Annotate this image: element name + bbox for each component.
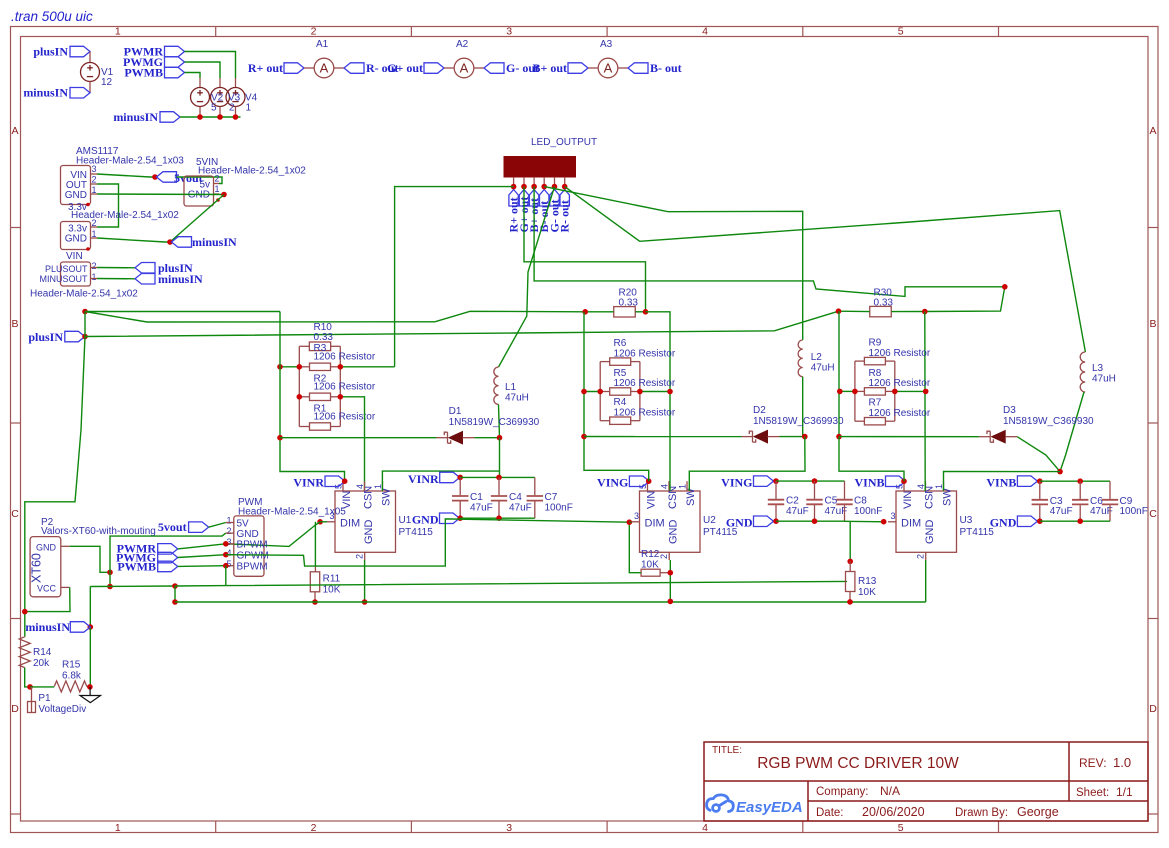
pins PWM header xyxy=(226,523,234,566)
junction LED pin 1 xyxy=(511,184,517,190)
wire B- out to L2 xyxy=(544,187,803,340)
junction PWM pin3 xyxy=(223,541,229,547)
svg-text:47uF: 47uF xyxy=(509,503,532,514)
net flag plusIN (VIN header) xyxy=(135,263,155,274)
pin VIN 1 xyxy=(91,278,98,280)
pin 5VIN 2 xyxy=(214,183,220,185)
svg-text:R11: R11 xyxy=(323,574,341,585)
junction R13 top xyxy=(847,559,853,565)
pins LED_OUTPUT 1-6 xyxy=(514,177,565,187)
junction LED pin 3 xyxy=(531,184,537,190)
wire GND diagonal to minusIN xyxy=(170,195,224,243)
svg-text:R13: R13 xyxy=(858,576,877,587)
wire L3 bottom xyxy=(1060,392,1084,472)
svg-text:47uF: 47uF xyxy=(786,506,809,517)
junction U1 DIM xyxy=(317,519,323,525)
wire BPWM drop xyxy=(225,566,227,586)
svg-text:A2: A2 xyxy=(456,39,469,50)
svg-text:C8: C8 xyxy=(854,496,867,507)
svg-text:4: 4 xyxy=(702,26,708,38)
capacitor C3 xyxy=(1032,481,1048,521)
svg-text:2: 2 xyxy=(311,26,317,38)
svg-text:U2: U2 xyxy=(703,515,716,526)
wire plusIN to R-channel rail xyxy=(85,311,280,313)
svg-text:5: 5 xyxy=(211,103,217,114)
wire R20 left xyxy=(585,311,614,313)
junction R15 gnd xyxy=(87,684,93,690)
net flag minusIN (V1 bottom) xyxy=(70,88,90,99)
net flag GND (C cluster R) xyxy=(440,513,460,524)
svg-text:100nF: 100nF xyxy=(854,506,882,517)
wire U1 GND to bus xyxy=(364,560,366,602)
wire D1 anode to SW node xyxy=(475,437,500,439)
net flag B- out (LED pin 4) xyxy=(540,190,549,207)
inductor L2 xyxy=(798,340,803,377)
svg-text:U3: U3 xyxy=(960,515,973,526)
junction C3 bottom xyxy=(1037,518,1043,524)
wire BPWM long run xyxy=(175,581,847,586)
inductor L3 xyxy=(1080,352,1085,392)
svg-text:PT4115: PT4115 xyxy=(399,527,434,538)
wire U3 GND to bus xyxy=(925,560,927,602)
title block text xyxy=(712,745,1133,819)
net flag plusIN (V1 top) xyxy=(70,46,90,57)
svg-text:R12: R12 xyxy=(641,549,660,560)
junction LED pin 6 xyxy=(562,184,568,190)
wire bank B right exit xyxy=(895,390,926,392)
svg-text:L3: L3 xyxy=(1092,363,1104,374)
junction GND net xyxy=(221,192,227,198)
net flag minusIN (bottom) xyxy=(70,622,90,633)
svg-text:2: 2 xyxy=(311,822,317,834)
junction U1 VIN xyxy=(342,478,348,484)
wire B channel VIN rail xyxy=(838,311,840,436)
capacitor C5 xyxy=(806,481,822,521)
junction B rail D3 row xyxy=(836,434,842,440)
svg-text:B- out: B- out xyxy=(650,61,682,75)
junction R rail D1 row xyxy=(277,435,283,441)
pin AMS1117 GND xyxy=(91,193,98,195)
capacitor C8 xyxy=(836,481,852,521)
wire R30 right xyxy=(891,311,925,313)
svg-text:VINR: VINR xyxy=(293,476,324,490)
pins U1 xyxy=(327,481,383,560)
junction C6 top xyxy=(1077,478,1083,484)
wire to U3 DIM xyxy=(845,520,887,523)
svg-text:3: 3 xyxy=(92,164,97,174)
pin R11 bottom xyxy=(314,592,316,602)
wire PWMG to pin4 xyxy=(178,555,226,558)
svg-text:DIM: DIM xyxy=(645,518,665,530)
svg-text:12: 12 xyxy=(101,77,113,88)
svg-text:GND: GND xyxy=(36,543,57,553)
sense bank rails G channel xyxy=(600,362,640,421)
junction SW node B xyxy=(1057,469,1063,475)
junction G rail D2 row xyxy=(581,434,587,440)
svg-text:C7: C7 xyxy=(545,492,558,503)
wire R13 top riser xyxy=(849,522,851,562)
svg-text:1: 1 xyxy=(226,516,231,526)
wire C cluster G bottom rail xyxy=(776,520,845,522)
junction PWM pin4 xyxy=(223,552,229,558)
svg-text:plusIN: plusIN xyxy=(33,45,68,59)
svg-text:B: B xyxy=(1149,318,1156,330)
wire XT60 VCC to rail xyxy=(25,587,70,611)
junction plusIN flag xyxy=(82,334,88,340)
wire bank B left exit xyxy=(840,390,855,392)
junction C2 bottom xyxy=(773,518,779,524)
svg-text:.tran 500u uic: .tran 500u uic xyxy=(11,9,93,24)
net flag VINB (C cluster) xyxy=(1017,476,1037,487)
net flag G+ out (LED pin 2) xyxy=(519,190,528,207)
svg-text:A1: A1 xyxy=(316,39,329,50)
capacitor C7 xyxy=(527,477,543,518)
svg-text:1: 1 xyxy=(373,484,383,489)
svg-text:1N5819W_C369930: 1N5819W_C369930 xyxy=(449,417,540,428)
net flag G- out (LED pin 5) xyxy=(550,190,559,207)
wire R11 top to DIM xyxy=(314,522,316,566)
svg-text:10K: 10K xyxy=(858,587,876,598)
pin V4 minus xyxy=(235,107,237,118)
pin VIN 2 xyxy=(91,267,98,269)
wire U2 SW xyxy=(689,437,805,491)
wire R channel VIN rail xyxy=(280,312,345,482)
net flag GND (C cluster B) xyxy=(1017,516,1037,527)
svg-text:D: D xyxy=(1149,703,1157,715)
svg-text:4: 4 xyxy=(702,822,708,834)
svg-text:Drawn By:: Drawn By: xyxy=(955,807,1008,819)
svg-text:C: C xyxy=(11,508,19,520)
junction bank R left R2 xyxy=(297,394,303,400)
voltage source V3 xyxy=(211,88,230,107)
junction PWM pin5 xyxy=(223,563,229,569)
svg-text:minusIN: minusIN xyxy=(25,620,70,634)
wire C cluster B top rail xyxy=(1040,480,1110,482)
resistor R14 xyxy=(19,637,30,668)
pin AMS1117 VIN xyxy=(91,173,98,175)
svg-text:R14: R14 xyxy=(33,647,52,658)
svg-text:VoltageDiv: VoltageDiv xyxy=(38,704,86,715)
svg-text:20k: 20k xyxy=(33,658,50,669)
pin R12 right xyxy=(660,572,670,574)
svg-text:LED_OUTPUT: LED_OUTPUT xyxy=(531,137,597,148)
svg-text:C5: C5 xyxy=(825,496,838,507)
svg-text:2: 2 xyxy=(226,526,231,536)
wire G rail to D2 cathode xyxy=(584,436,742,438)
net flag minusIN (VIN header) xyxy=(135,274,155,285)
junction R rail R3 row xyxy=(277,364,283,370)
junction U2 VIN xyxy=(646,478,652,484)
junction bank B right xyxy=(892,389,898,395)
wire PWMR to pin3 xyxy=(178,544,226,549)
net flag VINR (C cluster) xyxy=(440,472,460,483)
svg-text:1.0: 1.0 xyxy=(1113,755,1131,770)
IC U2 PT4115 xyxy=(640,491,701,552)
svg-text:C6: C6 xyxy=(1090,496,1103,507)
net flag 5vout (PWM) xyxy=(189,522,209,533)
wire gnd to PWM pin2 xyxy=(110,533,226,572)
wire C cluster R top rail xyxy=(460,476,535,478)
svg-text:5V: 5V xyxy=(237,518,250,529)
svg-text:VIN: VIN xyxy=(66,251,83,262)
ground symbol xyxy=(80,687,101,703)
junction R20 left xyxy=(582,309,588,315)
junction U1 GND bus xyxy=(362,599,368,605)
net flag R+ out (LED pin 1) xyxy=(509,190,518,207)
svg-text:47uH: 47uH xyxy=(505,393,529,404)
wire plusIN to D1 cathode xyxy=(280,437,437,439)
svg-text:D2: D2 xyxy=(753,405,766,416)
svg-text:Date:: Date: xyxy=(816,807,844,819)
wire U2 GND to bus xyxy=(669,560,671,601)
pin XT60 GND xyxy=(61,545,70,547)
svg-text:XT60: XT60 xyxy=(30,553,44,583)
wire B rail to U3 VIN xyxy=(839,437,904,482)
wire V1 plus pin xyxy=(89,52,91,63)
svg-text:plusIN: plusIN xyxy=(28,330,63,344)
wire GPWM to U2 DIM xyxy=(226,519,630,566)
svg-text:1: 1 xyxy=(92,272,97,282)
svg-text:D3: D3 xyxy=(1003,405,1016,416)
wire D3 anode to SW node xyxy=(1017,437,1060,472)
junction R13 bus xyxy=(847,599,853,605)
net flag VINB (U3 VIN) xyxy=(886,476,906,487)
wire PWMR to V4 xyxy=(185,52,236,79)
wire minusIN to R15 xyxy=(89,627,91,687)
junction V4 minus xyxy=(233,114,239,120)
inductor L1 xyxy=(494,367,499,404)
wire B rail to D3 cathode xyxy=(839,436,979,438)
voltage source V4 xyxy=(226,88,245,107)
svg-text:1/1: 1/1 xyxy=(1116,785,1133,799)
svg-text:20/06/2020: 20/06/2020 xyxy=(862,805,925,819)
junction C5 top xyxy=(812,478,818,484)
IC U3 PT4115 xyxy=(896,491,957,552)
junction C3 top xyxy=(1037,478,1043,484)
svg-text:10K: 10K xyxy=(323,585,341,596)
svg-text:47uF: 47uF xyxy=(1050,506,1073,517)
svg-text:100nF: 100nF xyxy=(1120,506,1148,517)
net flag minusIN (sources) xyxy=(160,112,180,123)
sense bank rails R channel xyxy=(299,346,340,426)
svg-text:Sheet:: Sheet: xyxy=(1076,787,1109,799)
svg-text:REV:: REV: xyxy=(1079,756,1107,770)
wire R20 to U2 CSN xyxy=(646,312,671,491)
wire ground bus xyxy=(175,601,926,603)
capacitor C1 xyxy=(452,477,468,518)
wire R15 left xyxy=(30,686,54,688)
svg-text:A: A xyxy=(604,61,613,76)
svg-text:A3: A3 xyxy=(600,39,613,50)
capacitor C2 xyxy=(768,481,784,521)
junction bank R right R3 xyxy=(338,364,344,370)
junction minusIN bottom xyxy=(88,624,94,630)
wire PLUSOUT to plusIN xyxy=(97,267,135,269)
pin R11 top xyxy=(314,566,316,572)
svg-text:1206 Resistor: 1206 Resistor xyxy=(314,352,376,363)
svg-text:2: 2 xyxy=(92,261,97,271)
svg-text:1: 1 xyxy=(246,103,252,114)
junction C2 top xyxy=(773,478,779,484)
wire gnd drop xyxy=(109,572,111,586)
net flag plusIN (left rail) xyxy=(65,331,85,342)
wire G channel VIN rail xyxy=(584,312,649,481)
svg-text:P1: P1 xyxy=(38,693,51,704)
net flag PWMG xyxy=(165,57,185,68)
junction P2 gnd b xyxy=(107,584,113,590)
wire bank G left exit xyxy=(584,391,600,393)
wire plusIN down-left rail xyxy=(25,337,85,637)
svg-text:VINB: VINB xyxy=(986,476,1016,490)
IC U1 PT4115 xyxy=(335,491,396,552)
wire PWMB to V2 xyxy=(185,73,201,79)
svg-text:A: A xyxy=(460,61,469,76)
svg-text:EasyEDA: EasyEDA xyxy=(736,799,803,816)
svg-text:2: 2 xyxy=(92,175,97,185)
wire 5vout to PWM pin1 xyxy=(209,523,226,528)
junction C1 bottom xyxy=(457,515,463,521)
svg-text:Valors-XT60-with-mouting: Valors-XT60-with-mouting xyxy=(41,526,156,537)
junction G rail R5 row xyxy=(581,389,587,395)
wire XT60 GND xyxy=(70,546,110,572)
pin R13 bottom xyxy=(849,592,851,602)
junction bus head top xyxy=(172,583,178,589)
wire AMS GND to 5VIN GND xyxy=(97,193,224,196)
wire MINUSOUT to minusIN xyxy=(97,278,135,280)
svg-text:2: 2 xyxy=(215,174,220,184)
svg-text:GPWM: GPWM xyxy=(237,551,269,562)
svg-text:2: 2 xyxy=(659,554,669,559)
voltage source V2 xyxy=(191,88,210,107)
net flag B+ out (LED pin 3) xyxy=(529,190,538,207)
svg-text:GND: GND xyxy=(726,516,753,530)
svg-text:RGB PWM CC DRIVER 10W: RGB PWM CC DRIVER 10W xyxy=(757,755,959,772)
wire R20 right xyxy=(635,311,645,313)
junction minusIN header xyxy=(167,239,173,245)
sense bank rails B channel xyxy=(855,361,895,421)
wire OUT to 3.3v header xyxy=(97,184,119,227)
svg-text:47uH: 47uH xyxy=(1092,374,1116,385)
net flag VINR (U1 VIN) xyxy=(325,476,345,487)
wire bank R to U1 CSN xyxy=(340,397,364,491)
wire BPWM to U1 DIM xyxy=(226,522,320,547)
wire L2 bottom xyxy=(802,377,804,437)
capacitor C4 xyxy=(491,477,507,518)
junction R12 gnd xyxy=(668,570,674,576)
net flag R- out (LED pin 6) xyxy=(560,190,569,207)
net flag PWMR (bottom) xyxy=(158,544,178,555)
wire VIN to 5vout xyxy=(97,174,155,177)
junction G CSN tap xyxy=(667,389,673,395)
wire U3 SW xyxy=(944,471,1061,491)
junction U2 GND bus xyxy=(668,599,674,605)
wire G+ out to R20 xyxy=(524,187,646,312)
pin V3 minus xyxy=(219,107,221,118)
wire B+ out to R30 upper xyxy=(534,187,1005,297)
svg-text:B: B xyxy=(11,318,18,330)
wire minusIN riser xyxy=(89,587,91,628)
svg-text:C9: C9 xyxy=(1120,496,1133,507)
svg-text:A: A xyxy=(1149,125,1156,137)
svg-text:VINB: VINB xyxy=(854,476,884,490)
svg-text:L2: L2 xyxy=(811,352,823,363)
svg-text:GND: GND xyxy=(65,190,87,201)
wire C cluster G top rail xyxy=(776,480,845,482)
wire R14 to R15 xyxy=(25,668,30,687)
junction R14 R15 xyxy=(27,684,33,690)
junction LED pin 2 xyxy=(521,184,527,190)
svg-text:GND: GND xyxy=(363,520,375,545)
net flag PWMB xyxy=(165,67,185,78)
svg-text:A: A xyxy=(11,125,18,137)
svg-text:4: 4 xyxy=(355,484,365,489)
svg-text:VINR: VINR xyxy=(408,472,439,486)
net flag PWMB (bottom) xyxy=(158,561,178,572)
junction U3 DIM xyxy=(881,519,887,525)
wire R15 right xyxy=(87,685,90,688)
svg-text:BPWM: BPWM xyxy=(237,540,268,551)
svg-text:5: 5 xyxy=(898,822,904,834)
svg-text:VING: VING xyxy=(721,476,752,490)
junction SW node G xyxy=(802,434,808,440)
voltage source V1 xyxy=(81,63,100,82)
net flag PWMG (bottom) xyxy=(158,552,178,563)
svg-text:100nF: 100nF xyxy=(545,503,573,514)
junction plusIN top xyxy=(82,309,88,315)
net flag VING (C cluster) xyxy=(754,476,774,487)
svg-text:4: 4 xyxy=(660,484,670,489)
junction R11 bus xyxy=(312,599,318,605)
pin 3.3v 2 xyxy=(91,226,98,228)
wire C cluster B bottom rail xyxy=(1040,520,1110,522)
net flag PWMR xyxy=(165,46,185,57)
svg-text:5: 5 xyxy=(898,26,904,38)
svg-text:1: 1 xyxy=(115,822,121,834)
svg-text:Header-Male-2.54_1x02: Header-Male-2.54_1x02 xyxy=(30,289,138,300)
svg-text:minusIN: minusIN xyxy=(113,110,158,124)
svg-text:VING: VING xyxy=(597,476,628,490)
svg-text:minusIN: minusIN xyxy=(158,272,203,286)
svg-text:1: 1 xyxy=(678,484,688,489)
svg-text:3: 3 xyxy=(891,511,896,521)
pin R13 top xyxy=(849,561,851,571)
svg-text:DIM: DIM xyxy=(340,518,360,530)
svg-text:N/A: N/A xyxy=(880,784,900,798)
wire U2 DIM stub xyxy=(629,521,631,523)
junction bus head bottom xyxy=(172,599,178,605)
svg-text:minusIN: minusIN xyxy=(192,235,237,249)
svg-text:B+ out: B+ out xyxy=(532,61,567,75)
wire D2 anode to SW node xyxy=(780,436,805,438)
pins U3 xyxy=(888,481,944,560)
svg-text:VCC: VCC xyxy=(37,584,57,594)
junction R30 right xyxy=(922,309,928,315)
pin V2 plus xyxy=(199,78,201,88)
pin XT60 VCC xyxy=(61,586,70,588)
net flag minusIN (headers) xyxy=(172,237,192,248)
svg-text:U1: U1 xyxy=(399,515,412,526)
wire U1 SW to node xyxy=(382,471,499,491)
junction bank G right xyxy=(637,389,643,395)
svg-text:1N5819W_C369930: 1N5819W_C369930 xyxy=(1003,416,1094,427)
junction B rail R8 row xyxy=(837,389,843,395)
junction C6 bottom xyxy=(1077,518,1083,524)
svg-text:1: 1 xyxy=(115,26,121,38)
wire plusIN to R20 xyxy=(85,311,585,322)
wire bus head drop xyxy=(174,586,176,602)
svg-text:GND: GND xyxy=(412,513,439,527)
junction bank R left R3 xyxy=(297,364,303,370)
